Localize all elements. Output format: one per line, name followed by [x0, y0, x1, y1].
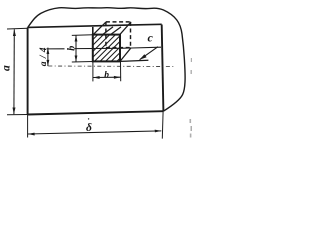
svg-text:a: a: [0, 65, 12, 71]
svg-text:δ: δ: [86, 122, 92, 134]
svg-text:b: b: [67, 46, 78, 51]
svg-text:c: c: [148, 30, 154, 44]
svg-text:b: b: [104, 70, 109, 80]
svg-text:a/4: a/4: [39, 44, 49, 66]
